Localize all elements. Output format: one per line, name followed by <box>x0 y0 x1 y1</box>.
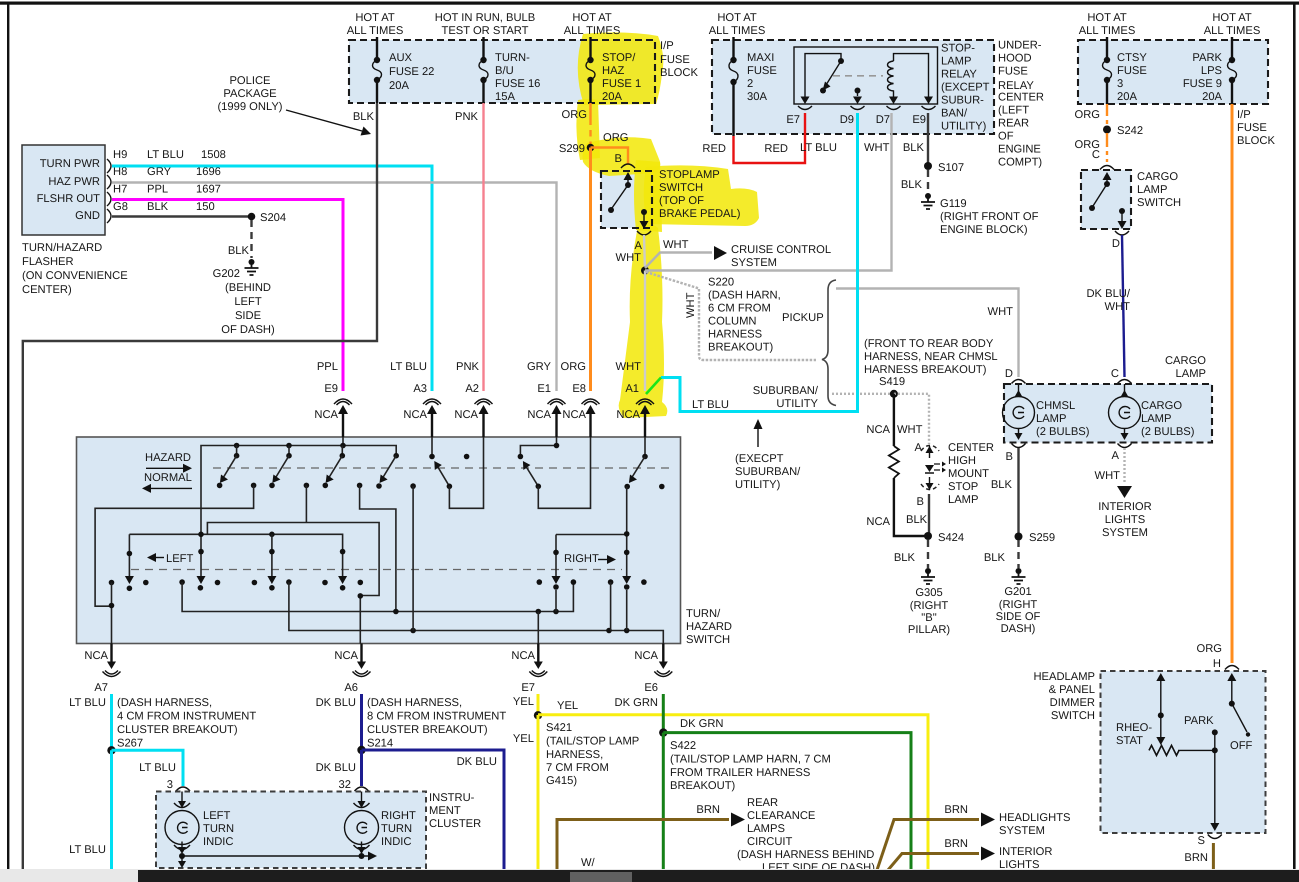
svg-text:H: H <box>1213 658 1221 670</box>
svg-text:WHT: WHT <box>1095 470 1121 482</box>
svg-text:NCA: NCA <box>562 409 586 421</box>
pin C connector <box>1100 166 1114 170</box>
wire park junction to S pin <box>1214 750 1216 824</box>
svg-text:A2: A2 <box>465 383 479 395</box>
svg-text:S: S <box>1198 835 1205 847</box>
wire feed turn-b/u fuse <box>482 37 484 60</box>
stoplamp switch box fill <box>601 171 652 228</box>
instrument cluster box fill <box>156 792 426 869</box>
svg-text:CLUSTER BREAKOUT): CLUSTER BREAKOUT) <box>367 724 488 736</box>
stoplamp switch arm <box>612 185 628 208</box>
pin A connector (cargo lamp) <box>1118 444 1132 448</box>
svg-text:DK GRN: DK GRN <box>614 697 658 709</box>
svg-text:BRN: BRN <box>696 804 720 816</box>
svg-text:ORG: ORG <box>562 109 587 121</box>
wire BRN interior lights <box>888 854 979 871</box>
node rail E9 tap <box>340 443 346 449</box>
svg-text:(RIGHT: (RIGHT <box>999 599 1038 611</box>
svg-text:HAZARD: HAZARD <box>686 621 732 633</box>
svg-text:BRN: BRN <box>944 804 968 816</box>
wire PPL flshr out H7 to E9 <box>112 200 343 392</box>
svg-text:B/U: B/U <box>495 65 514 77</box>
svg-text:SWITCH: SWITCH <box>1137 197 1181 209</box>
NCA stub A6 <box>360 644 362 663</box>
svg-text:UNDER-: UNDER- <box>998 40 1042 52</box>
svg-text:HOT AT: HOT AT <box>572 12 612 24</box>
pin 32 connector <box>355 787 369 791</box>
svg-text:TURN-: TURN- <box>495 52 530 64</box>
svg-text:W/: W/ <box>581 857 596 869</box>
svg-text:LT BLU: LT BLU <box>69 697 106 709</box>
wire YEL S421 branch right <box>538 715 928 870</box>
label LEFT with arrow <box>147 553 156 562</box>
pin S connector <box>1208 835 1222 839</box>
svg-text:LEFT: LEFT <box>203 810 231 822</box>
svg-text:20A: 20A <box>1117 91 1137 103</box>
cargo switch arm <box>1093 184 1107 206</box>
svg-text:ALL TIMES: ALL TIMES <box>347 25 404 37</box>
svg-text:WHT: WHT <box>864 142 890 154</box>
bottom scrollbar thumb <box>570 872 632 882</box>
wire BLK police package from aux fuse <box>23 103 377 870</box>
svg-text:STOP-: STOP- <box>941 43 975 55</box>
svg-text:OFF: OFF <box>1230 740 1253 752</box>
wire LT BLU diagonal to A1 <box>646 378 661 395</box>
headlamp dimmer switch dashed border <box>1101 671 1266 833</box>
wire P2 contact drop <box>305 485 307 522</box>
svg-text:6 CM FROM: 6 CM FROM <box>708 303 771 315</box>
highlighter band over stoplamp label <box>644 165 759 226</box>
switch pole P5 <box>518 437 557 489</box>
svg-text:GRY: GRY <box>147 166 172 178</box>
svg-text:HAZARD: HAZARD <box>145 452 191 464</box>
highlighter mark over STOP/HAZ fuse <box>578 32 664 105</box>
svg-text:BRN: BRN <box>944 838 968 850</box>
svg-text:BRAKE PEDAL): BRAKE PEDAL) <box>659 208 741 220</box>
svg-text:RIGHT: RIGHT <box>564 553 599 565</box>
svg-text:FUSE: FUSE <box>998 66 1028 78</box>
relay switch arm <box>826 61 841 85</box>
NCA stub E6 <box>662 644 664 663</box>
wire E6 internal bus <box>289 582 663 643</box>
svg-text:CARGO: CARGO <box>1165 355 1206 367</box>
svg-text:B: B <box>1006 451 1013 463</box>
svg-text:PPL: PPL <box>147 184 168 196</box>
svg-text:YEL: YEL <box>557 700 578 712</box>
relay switch frame <box>805 54 841 98</box>
relay pin E7 arrow <box>801 97 810 105</box>
wire YEL S421 down <box>537 715 540 870</box>
svg-text:E9: E9 <box>912 114 926 126</box>
NCA stub A7 <box>110 644 112 663</box>
node E1 rail <box>554 443 560 449</box>
svg-text:S220: S220 <box>708 277 734 289</box>
wire BLK relay E9 to S107 <box>927 113 929 166</box>
svg-text:YEL: YEL <box>513 733 534 745</box>
NCA stub A1 <box>644 412 646 437</box>
svg-text:E9: E9 <box>324 383 338 395</box>
lower switch L4 <box>338 549 347 591</box>
svg-text:(RIGHT: (RIGHT <box>910 600 949 612</box>
svg-text:30A: 30A <box>747 91 767 103</box>
svg-text:SWITCH: SWITCH <box>1051 710 1095 722</box>
wire feed aux fuse <box>376 37 378 60</box>
CTSY/PARK fuse box dashed border <box>1078 40 1268 104</box>
svg-text:RELAY: RELAY <box>941 69 977 81</box>
highlighter stripe in stoplamp switch box <box>634 160 662 232</box>
svg-text:S259: S259 <box>1029 532 1055 544</box>
svg-text:150: 150 <box>196 201 215 213</box>
interior lights arrow <box>981 847 995 861</box>
node E7 line crossing <box>393 609 399 615</box>
svg-text:E1: E1 <box>537 383 551 395</box>
svg-text:PILLAR): PILLAR) <box>908 624 951 636</box>
svg-text:BLK: BLK <box>353 111 375 123</box>
switch pole P1 <box>217 446 257 489</box>
svg-text:STOP/: STOP/ <box>602 52 636 64</box>
pin E8 connector <box>582 399 600 405</box>
lower switch L1 <box>125 534 134 591</box>
svg-text:WHT: WHT <box>663 239 689 251</box>
svg-text:LT BLU: LT BLU <box>69 844 106 856</box>
svg-text:DIMMER: DIMMER <box>1050 697 1095 709</box>
NCA stub A3 <box>431 412 433 437</box>
flasher pin connector H9 <box>107 159 111 173</box>
underhood fuse relay center box fill <box>712 40 994 134</box>
svg-text:POLICE: POLICE <box>229 75 270 87</box>
svg-text:HARNESS: HARNESS <box>708 329 762 341</box>
svg-text:TURN PWR: TURN PWR <box>40 158 100 170</box>
cluster ground exit arrow <box>181 856 183 862</box>
svg-text:TURN: TURN <box>381 823 412 835</box>
svg-text:LPS: LPS <box>1201 65 1222 77</box>
wire vertical x413 <box>412 486 414 630</box>
svg-text:D7: D7 <box>876 114 890 126</box>
cargo lamp switch box fill <box>1081 170 1131 229</box>
pin A6 connector <box>353 671 371 677</box>
svg-text:(BEHIND: (BEHIND <box>225 282 271 294</box>
svg-text:BRN: BRN <box>1184 852 1208 864</box>
svg-text:CLUSTER BREAKOUT): CLUSTER BREAKOUT) <box>117 724 238 736</box>
wire WHT to cruise control <box>645 253 712 269</box>
CTSY/PARK fuse box fill <box>1078 40 1268 104</box>
svg-text:A1: A1 <box>625 383 639 395</box>
svg-text:I/P: I/P <box>1237 109 1251 121</box>
relay pin E9 arrow <box>924 97 933 105</box>
svg-text:LAMPS: LAMPS <box>747 823 785 835</box>
svg-text:NCA: NCA <box>334 650 358 662</box>
pin D9 connector <box>851 106 865 110</box>
svg-text:SWITCH: SWITCH <box>686 634 730 646</box>
svg-text:OF DASH): OF DASH) <box>221 324 275 336</box>
relay pin D9 arrow <box>853 97 862 105</box>
svg-text:CARGO: CARGO <box>1137 171 1178 183</box>
svg-text:CENTER: CENTER <box>948 442 994 454</box>
svg-text:(2 BULBS): (2 BULBS) <box>1036 426 1090 438</box>
lower switch L3 <box>267 534 276 590</box>
left dashed line <box>131 569 622 571</box>
svg-text:(DASH HARN,: (DASH HARN, <box>708 290 781 302</box>
svg-text:G201: G201 <box>1004 586 1031 598</box>
wire GRY haz pwr H8 to E1 <box>112 183 557 392</box>
svg-text:NCA: NCA <box>866 516 890 528</box>
svg-text:AUX: AUX <box>389 52 413 64</box>
label (EXECPT SUBURBAN/ UTILITY) with arrow <box>757 428 759 447</box>
svg-text:8 CM FROM INSTRUMENT: 8 CM FROM INSTRUMENT <box>367 711 506 723</box>
node e7 right drop joint <box>610 582 612 630</box>
svg-text:G415): G415) <box>546 775 577 787</box>
svg-text:NCA: NCA <box>511 650 535 662</box>
svg-text:A3: A3 <box>413 383 427 395</box>
svg-text:ORG: ORG <box>1075 109 1100 121</box>
lower switch R1 <box>552 535 561 612</box>
pin A connector <box>637 231 651 235</box>
wire DK GRN S422 branch right <box>663 733 911 870</box>
pin D connector (chmsl) <box>1012 380 1026 384</box>
svg-text:(EXCEPT: (EXCEPT <box>941 82 990 94</box>
svg-text:LT BLU: LT BLU <box>147 149 184 161</box>
svg-text:S419: S419 <box>879 376 905 388</box>
svg-text:S424: S424 <box>938 532 964 544</box>
svg-text:HAZ PWR: HAZ PWR <box>48 176 100 188</box>
underhood fuse relay center dashed border <box>712 40 994 134</box>
wire DK BLU S214 to cluster pin 32 <box>360 750 363 786</box>
wire WHT S220 breakout bracket <box>646 272 816 360</box>
right turn indicator bulb <box>345 792 379 855</box>
switch pole P3 <box>323 446 363 489</box>
svg-text:3: 3 <box>167 779 173 791</box>
pin D7 connector <box>887 106 901 110</box>
svg-text:ALL TIMES: ALL TIMES <box>1204 25 1261 37</box>
bottom scrollbar dark region <box>138 870 1299 882</box>
wire LT BLU relay D9 down <box>661 113 858 412</box>
svg-text:ORG: ORG <box>561 361 586 373</box>
svg-text:LT BLU: LT BLU <box>390 361 427 373</box>
headlamp dimmer switch box fill <box>1101 671 1266 833</box>
wire BLK chmsl B to S259 <box>1017 448 1019 537</box>
svg-text:(DASH HARNESS BEHIND: (DASH HARNESS BEHIND <box>737 849 874 861</box>
node bus 413 <box>410 628 416 634</box>
wire ORG S299 to E8 <box>589 148 592 392</box>
left rail <box>129 534 342 556</box>
svg-text:E7: E7 <box>521 682 535 694</box>
svg-text:FUSE 16: FUSE 16 <box>495 78 540 90</box>
svg-text:BLOCK: BLOCK <box>1237 135 1275 147</box>
wire P3 contact jog to E7 line <box>360 485 396 611</box>
svg-text:NCA: NCA <box>454 409 478 421</box>
svg-text:S267: S267 <box>117 738 143 750</box>
svg-text:(2 BULBS): (2 BULBS) <box>1141 426 1195 438</box>
page right border <box>1293 3 1296 871</box>
ground G119 <box>921 193 935 209</box>
wire LT BLU A7 to S267 <box>110 694 113 750</box>
svg-text:FROM TRAILER HARNESS: FROM TRAILER HARNESS <box>670 767 810 779</box>
svg-text:INTERIOR: INTERIOR <box>1098 501 1151 513</box>
svg-text:NCA: NCA <box>866 424 890 436</box>
svg-text:UTILITY): UTILITY) <box>735 479 781 491</box>
svg-text:C: C <box>1092 149 1100 161</box>
turn/hazard flasher box fill <box>22 145 105 235</box>
svg-text:D: D <box>1005 368 1013 380</box>
svg-text:ENGINE BLOCK): ENGINE BLOCK) <box>940 224 1028 236</box>
svg-text:FLASHER: FLASHER <box>22 256 74 268</box>
lower switch R2 <box>622 487 631 631</box>
pin C connector (cargo lamp) <box>1118 380 1132 384</box>
turn/hazard switch box fill <box>77 437 681 644</box>
svg-text:CLEARANCE: CLEARANCE <box>747 810 815 822</box>
NCA stub E1 <box>555 412 557 437</box>
svg-text:G8: G8 <box>113 201 128 213</box>
svg-text:G305: G305 <box>915 587 942 599</box>
svg-text:FUSE: FUSE <box>1237 122 1267 134</box>
wire BLK dashed S107 to G119 <box>927 170 929 192</box>
svg-text:LT BLU: LT BLU <box>692 399 729 411</box>
svg-text:H8: H8 <box>113 166 127 178</box>
svg-text:RELAY: RELAY <box>998 80 1034 92</box>
wire ORG S242 to cargo switch C <box>1106 133 1108 162</box>
pin E7 connector <box>798 106 812 110</box>
svg-text:HOT AT: HOT AT <box>1212 12 1252 24</box>
svg-text:NCA: NCA <box>616 409 640 421</box>
rear clearance arrow <box>731 813 745 827</box>
svg-text:SUBURBAN/: SUBURBAN/ <box>753 385 819 397</box>
svg-text:D: D <box>1112 238 1120 250</box>
chmsl/cargo lamp box fill <box>1004 384 1212 443</box>
svg-text:ALL TIMES: ALL TIMES <box>709 25 766 37</box>
wire ORG stop/haz fuse to S299 <box>589 103 591 148</box>
svg-text:BREAKOUT): BREAKOUT) <box>670 780 736 792</box>
svg-text:LAMP: LAMP <box>1176 368 1206 380</box>
svg-text:(ON CONVENIENCE: (ON CONVENIENCE <box>22 270 128 282</box>
dimmer input arm <box>1227 673 1250 737</box>
lower contact dots row right <box>537 579 543 585</box>
svg-text:TURN/HAZARD: TURN/HAZARD <box>22 242 102 254</box>
svg-text:PACKAGE: PACKAGE <box>223 88 276 100</box>
svg-text:A: A <box>1112 450 1120 462</box>
svg-text:UTILITY): UTILITY) <box>941 121 987 133</box>
stoplamp switch left contact <box>608 207 614 213</box>
wire E8 to P5 contact <box>538 437 590 508</box>
svg-text:SYSTEM: SYSTEM <box>1102 527 1148 539</box>
cargo switch output arrow <box>1121 211 1123 222</box>
svg-text:A: A <box>915 442 923 454</box>
svg-text:CARGO: CARGO <box>1141 400 1182 412</box>
svg-text:DASH): DASH) <box>1001 623 1036 635</box>
wire feed maxi fuse <box>732 37 734 60</box>
svg-text:DK GRN: DK GRN <box>680 718 724 730</box>
pin 3 connector <box>176 787 190 791</box>
svg-text:20A: 20A <box>389 80 409 92</box>
svg-text:LAMP: LAMP <box>1137 184 1167 196</box>
svg-text:32: 32 <box>339 779 351 791</box>
svg-text:PARK: PARK <box>1184 715 1214 727</box>
pin B connector (chmsl) <box>1012 444 1026 448</box>
switch pole P2 <box>269 446 309 489</box>
svg-text:WHT: WHT <box>1105 301 1131 313</box>
flasher pin connector G8 <box>107 209 111 223</box>
svg-text:SIDE OF: SIDE OF <box>996 611 1041 623</box>
pin B connector <box>621 164 635 168</box>
svg-text:HOT AT: HOT AT <box>1087 12 1127 24</box>
svg-text:TURN: TURN <box>203 823 234 835</box>
stoplamp switch dashed border <box>601 171 652 228</box>
svg-text:PPL: PPL <box>317 361 338 373</box>
svg-text:BLK: BLK <box>906 514 928 526</box>
svg-text:15A: 15A <box>495 91 515 103</box>
svg-text:E8: E8 <box>572 383 586 395</box>
svg-text:2: 2 <box>747 78 753 90</box>
wire feed ctsy fuse <box>1106 37 1108 60</box>
svg-text:& PANEL: & PANEL <box>1049 684 1095 696</box>
svg-text:WHT: WHT <box>616 361 642 373</box>
node right arrow chain e7 <box>553 609 559 615</box>
fuse CTSY FUSE 3 20A <box>1103 57 1112 104</box>
svg-text:LAMP: LAMP <box>1141 413 1171 425</box>
node bus 627 <box>624 628 630 634</box>
NCA stub E8 <box>589 412 591 437</box>
svg-text:CTSY: CTSY <box>1117 52 1147 64</box>
chmsl lamp bulb <box>1003 384 1035 440</box>
splice S421 <box>534 711 542 719</box>
svg-text:S204: S204 <box>260 212 286 224</box>
svg-text:LT BLU: LT BLU <box>139 762 176 774</box>
park contact <box>1212 729 1218 735</box>
svg-text:RHEO-: RHEO- <box>1116 722 1152 734</box>
hazard dashed line <box>213 467 672 469</box>
svg-text:(EXECPT: (EXECPT <box>735 453 784 465</box>
svg-text:BLK: BLK <box>984 552 1006 564</box>
svg-text:BLK: BLK <box>228 245 250 257</box>
svg-text:S299: S299 <box>559 143 585 155</box>
I/P fuse block dashed border <box>349 40 655 103</box>
fuse TURN-B/U FUSE 16 15A <box>479 57 488 103</box>
wire WHT cargo lamp A to interior lights <box>1123 448 1125 484</box>
chmsl/cargo lamp box dashed border <box>1004 384 1212 443</box>
svg-text:INDIC: INDIC <box>203 836 233 848</box>
svg-text:RED: RED <box>764 143 788 155</box>
svg-text:G202: G202 <box>213 268 240 280</box>
switch pole A3 <box>429 437 452 489</box>
node left rail P2 <box>269 532 275 538</box>
stoplamp switch pivot <box>625 182 631 188</box>
pin H connector <box>1225 666 1239 670</box>
svg-text:OF: OF <box>998 131 1014 143</box>
svg-text:GND: GND <box>75 210 100 222</box>
svg-text:HIGH: HIGH <box>948 455 976 467</box>
pin A3 connector <box>423 399 441 405</box>
svg-text:COLUMN: COLUMN <box>708 316 756 328</box>
svg-text:1696: 1696 <box>196 166 221 178</box>
svg-text:20A: 20A <box>1202 91 1222 103</box>
svg-text:LEFT: LEFT <box>234 296 262 308</box>
instrument cluster dashed border <box>156 792 426 869</box>
wire WHT relay D7 to junction <box>645 113 892 271</box>
node stoplamp junction <box>641 267 649 275</box>
svg-text:B: B <box>917 496 924 508</box>
wire BLK dashed S424 to G305 <box>927 540 929 568</box>
pin E1 connector <box>548 399 566 405</box>
node E7 drop <box>536 609 542 615</box>
svg-text:DK BLU: DK BLU <box>316 762 356 774</box>
svg-text:REAR: REAR <box>747 797 778 809</box>
page top border <box>0 2 1299 5</box>
svg-text:1697: 1697 <box>196 184 221 196</box>
svg-text:GRY: GRY <box>527 361 552 373</box>
svg-text:1508: 1508 <box>201 149 226 161</box>
svg-text:HAZ: HAZ <box>602 65 625 77</box>
relay pin D7 arrow <box>889 97 898 105</box>
svg-text:HARNESS BREAKOUT): HARNESS BREAKOUT) <box>864 364 987 376</box>
